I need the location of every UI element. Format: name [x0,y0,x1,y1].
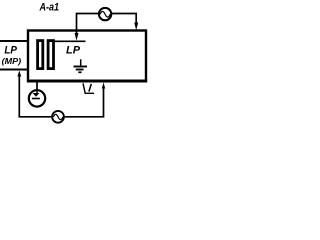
svg-text:LP: LP [4,45,17,57]
receiver probe P1 [29,90,45,106]
wire G2 right up to box bottom [64,89,103,117]
arrow up onto box bottom [102,82,105,88]
probe inner bar [32,98,40,100]
specimen box [28,31,146,82]
svg-text:A-a1: A-a1 [39,2,59,14]
G2 sine wave [53,114,63,119]
electrode wire (inner horizontal line) [53,40,86,42]
ground [74,59,88,72]
transducer pocket LP(MP) top line [0,40,28,42]
svg-text:(MP): (MP) [2,56,22,66]
transducer plate 1 [38,41,43,69]
AC generator G2 (bottom) [52,111,64,123]
specimen box bottom edge (thicker) [27,80,147,83]
receiver probe stub wire [36,82,38,90]
AC generator G1 (top) [99,8,111,20]
current direction arrow [83,83,94,93]
transducer pocket LP(MP) bottom line [0,69,28,71]
arrow up onto LP(MP) bottom line [17,71,21,77]
arrow down onto electrode wire [75,33,79,41]
G1 sine wave [100,12,110,18]
wire LP(MP) down-left [19,76,51,117]
svg-text:LP: LP [66,44,81,56]
probe inner arrow [36,90,38,93]
wire G1 left to node over plates [77,14,99,34]
arrow down onto box top [134,23,138,31]
wire G1 right to box top [112,14,137,24]
label I [89,84,91,92]
transducer plate 2 [48,41,53,69]
